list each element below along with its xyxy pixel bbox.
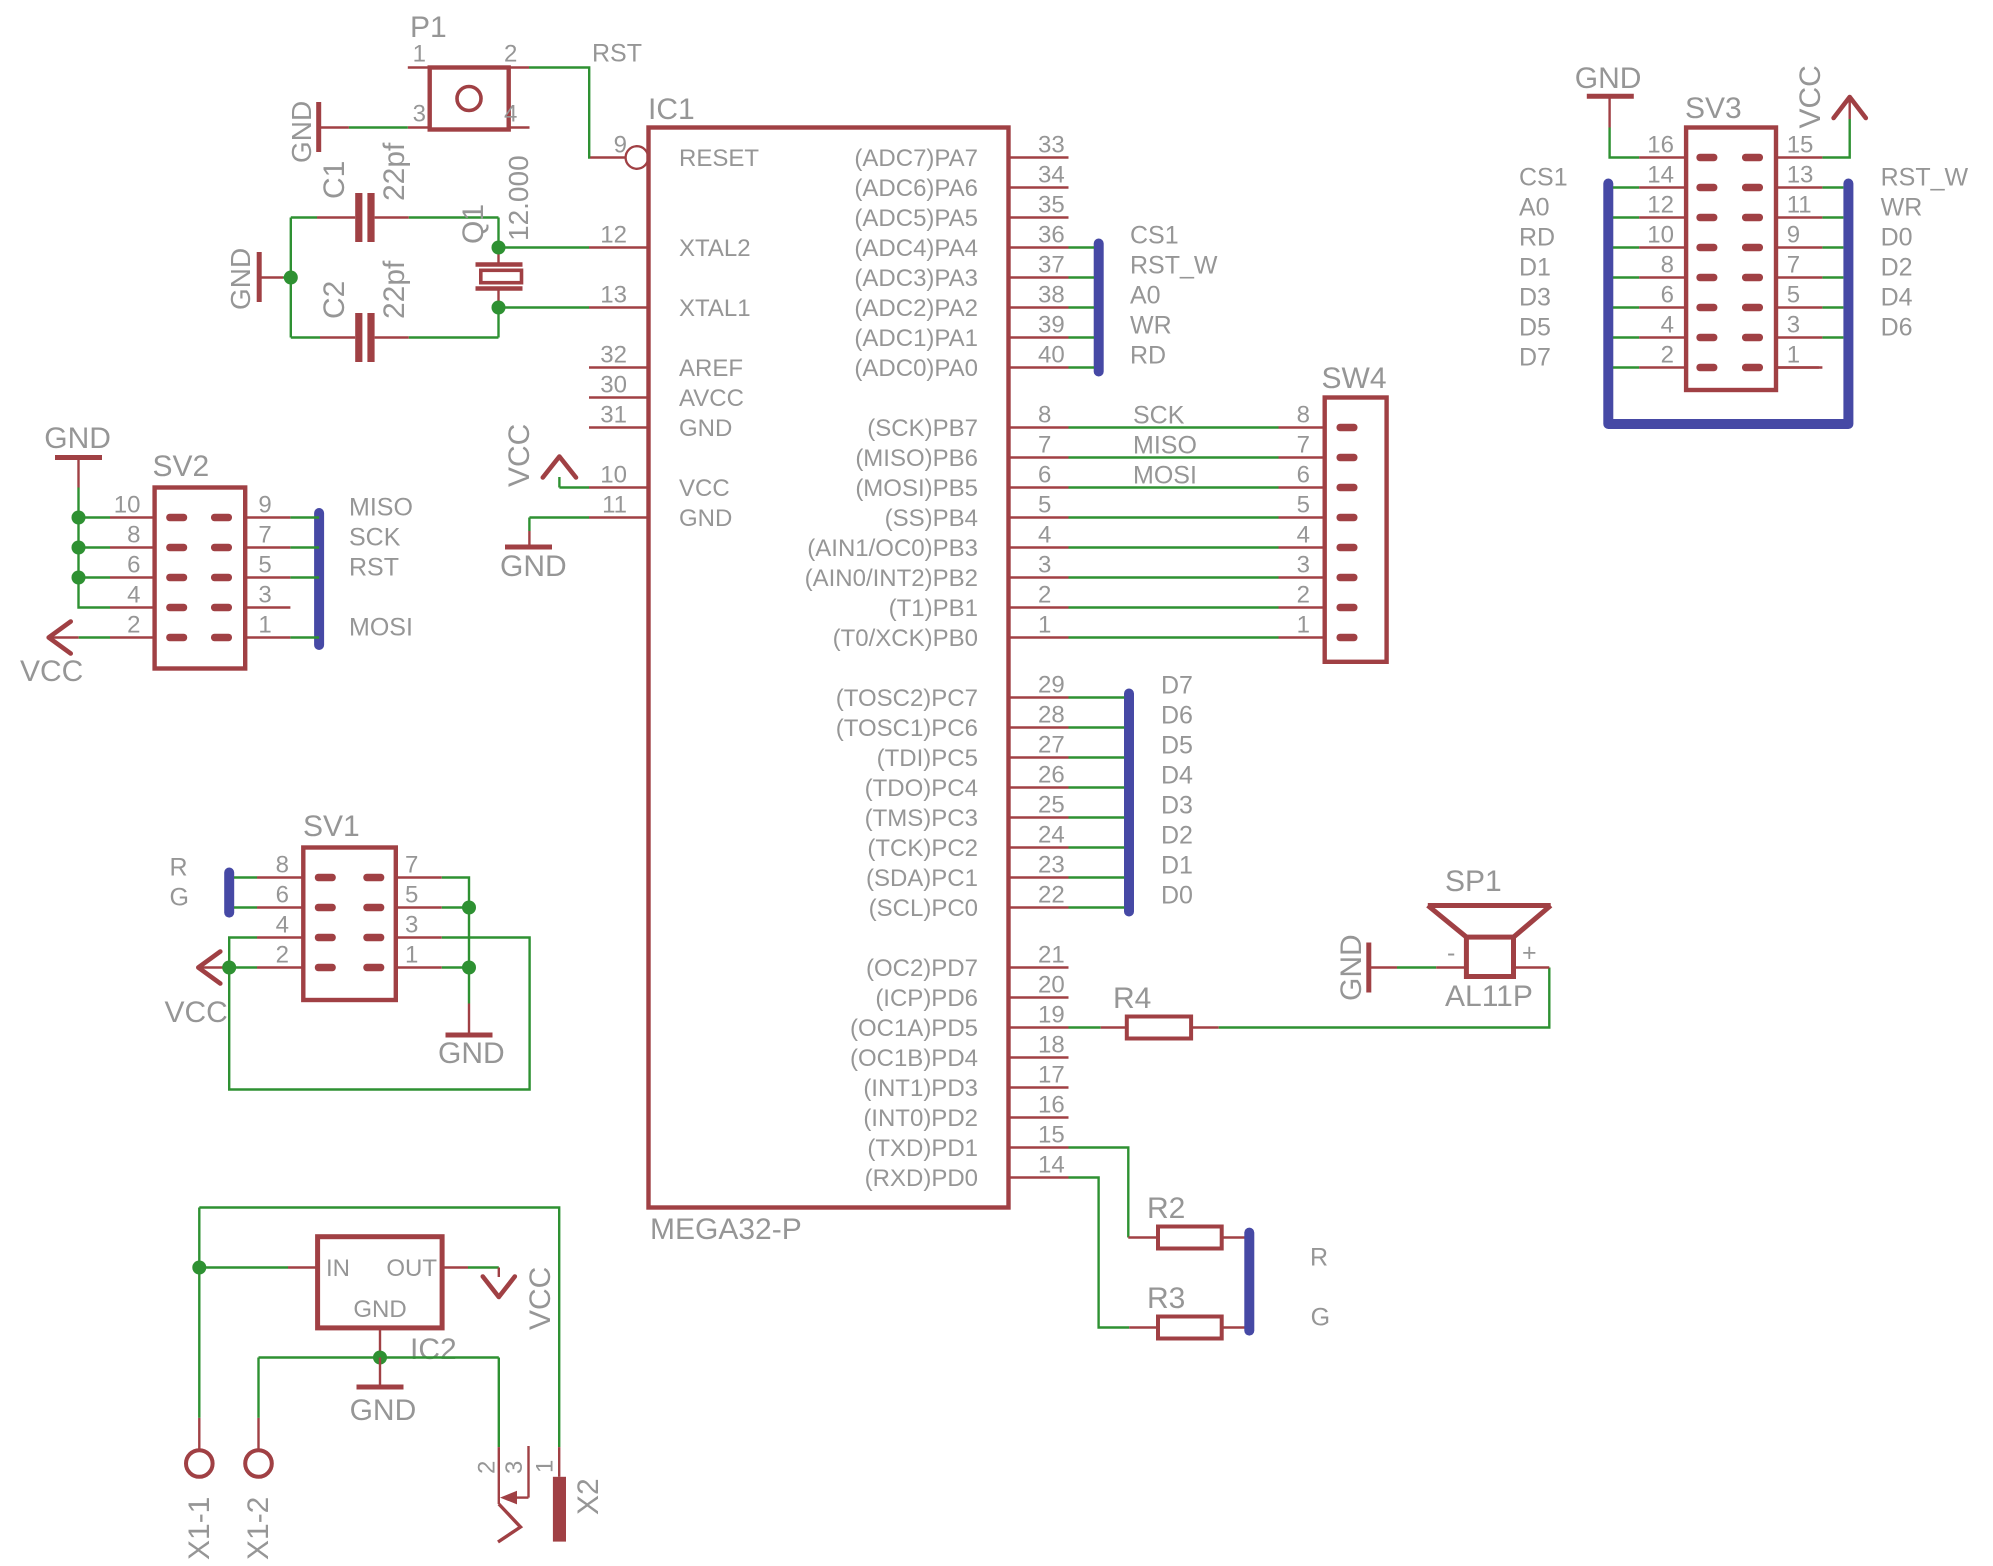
speaker SP1 xyxy=(1436,966,1466,968)
SV2 pin 10 (left) xyxy=(110,516,155,518)
C1 leads xyxy=(317,216,355,218)
svg-text:(RXD)PD0: (RXD)PD0 xyxy=(865,1165,978,1192)
svg-text:(INT1)PD3: (INT1)PD3 xyxy=(863,1075,978,1102)
svg-text:MISO: MISO xyxy=(1133,432,1197,460)
svg-text:D7: D7 xyxy=(1161,672,1193,700)
svg-text:A0: A0 xyxy=(1519,194,1550,222)
svg-text:D1: D1 xyxy=(1519,254,1551,282)
svg-text:5: 5 xyxy=(405,882,418,909)
svg-text:(TOSC2)PC7: (TOSC2)PC7 xyxy=(836,685,978,712)
crystal Q1 xyxy=(476,262,523,267)
svg-text:GND: GND xyxy=(679,505,732,532)
svg-text:21: 21 xyxy=(1038,942,1065,969)
wire net RST from P1 pin 2 to IC1 RESET xyxy=(529,68,590,158)
svg-text:GND: GND xyxy=(350,1394,417,1427)
svg-text:16: 16 xyxy=(1038,1092,1065,1119)
wire PC pin to bus xyxy=(1069,876,1125,878)
svg-text:Q1: Q1 xyxy=(457,204,490,244)
svg-text:3: 3 xyxy=(1038,552,1051,579)
IC1 pin 7 (MISO)PB6 (right) xyxy=(1009,456,1069,458)
IC IC1 MEGA32-P outline xyxy=(649,128,1009,1208)
bus segment R,G at R2/R3 xyxy=(1244,1233,1254,1331)
wire XTAL1 pin 13 xyxy=(499,306,590,308)
supply symbol VCC left arrow at SV2 pin 2 xyxy=(49,622,71,654)
svg-text:SCK: SCK xyxy=(349,524,401,552)
svg-text:GND: GND xyxy=(438,1037,505,1070)
svg-text:VCC: VCC xyxy=(165,996,228,1029)
SV1 pin 8 (left) xyxy=(257,876,303,878)
SV1 pin 2 (left) xyxy=(257,966,303,968)
IC1 pin 25 (TMS)PC3 (right) xyxy=(1009,816,1069,818)
IC1 pin 13 XTAL1 (left) xyxy=(589,306,649,308)
svg-text:D4: D4 xyxy=(1161,762,1193,790)
IC1 pin 32 AREF (left) xyxy=(589,366,649,368)
junction SV2 pin10 xyxy=(72,511,86,525)
P1 pin 3 xyxy=(408,126,430,128)
SV3 pin 2 (left) xyxy=(1639,366,1686,368)
SW4 pin 1 xyxy=(1279,636,1325,638)
svg-text:2: 2 xyxy=(127,612,140,639)
svg-text:28: 28 xyxy=(1038,702,1065,729)
resistor R4 xyxy=(1101,1026,1127,1028)
IC1 pin 12 XTAL2 (left) xyxy=(589,246,649,248)
ground symbol GND at P1 xyxy=(316,102,321,152)
svg-text:(TOSC1)PC6: (TOSC1)PC6 xyxy=(836,715,978,742)
IC1 pin 23 (SDA)PC1 (right) xyxy=(1009,876,1069,878)
svg-text:5: 5 xyxy=(1038,492,1051,519)
svg-text:MOSI: MOSI xyxy=(1133,462,1197,490)
P1 pin 1 xyxy=(408,66,430,68)
junction SV1 pin5 xyxy=(462,901,476,915)
svg-text:D0: D0 xyxy=(1881,224,1913,252)
svg-text:30: 30 xyxy=(600,372,627,399)
wire SV3 left pin to bus xyxy=(1613,216,1639,218)
wire PB pin to SW4 xyxy=(1069,606,1279,608)
svg-text:3: 3 xyxy=(1787,312,1800,339)
wire SV3 left pin to bus xyxy=(1613,366,1639,368)
svg-text:10: 10 xyxy=(600,462,627,489)
svg-text:12: 12 xyxy=(1647,192,1674,219)
pad X1-1 xyxy=(198,1418,200,1450)
wire left vertical C1-C2 xyxy=(290,218,292,338)
svg-text:MEGA32-P: MEGA32-P xyxy=(650,1213,802,1246)
svg-text:3: 3 xyxy=(405,912,418,939)
IC1 pin 22 (SCL)PC0 (right) xyxy=(1009,906,1069,908)
IC1 pin 10 VCC (left) xyxy=(589,486,649,488)
svg-text:1: 1 xyxy=(1297,612,1310,639)
svg-text:6: 6 xyxy=(1038,462,1051,489)
svg-text:GND: GND xyxy=(500,550,567,583)
svg-text:D5: D5 xyxy=(1519,314,1551,342)
svg-text:R4: R4 xyxy=(1113,982,1151,1015)
svg-text:MOSI: MOSI xyxy=(349,614,413,642)
wire SV3 left pin to bus xyxy=(1613,276,1639,278)
svg-text:GND: GND xyxy=(1335,934,1368,1001)
wire SV1 right rail pins 7,5,1 xyxy=(442,878,469,1004)
svg-text:RD: RD xyxy=(1130,342,1166,370)
junction Q1 top xyxy=(492,241,506,255)
wire pin15 to R2 xyxy=(1069,1148,1129,1238)
svg-text:GND: GND xyxy=(225,248,256,310)
svg-text:RD: RD xyxy=(1519,224,1555,252)
P1 pin 4 xyxy=(509,126,530,128)
svg-text:8: 8 xyxy=(276,852,289,879)
svg-text:35: 35 xyxy=(1038,192,1065,219)
svg-text:R: R xyxy=(1310,1244,1328,1272)
wire GND to junction xyxy=(283,276,291,278)
svg-text:IC2: IC2 xyxy=(410,1333,457,1366)
svg-text:13: 13 xyxy=(600,282,627,309)
IC1 pin 39 (ADC1)PA1 (right) xyxy=(1009,336,1069,338)
SV2 pin 1 (right) xyxy=(245,636,290,638)
jack X2 pin 3 contact with arrow xyxy=(527,1446,529,1498)
svg-text:WR: WR xyxy=(1130,312,1172,340)
svg-text:(SCL)PC0: (SCL)PC0 xyxy=(869,895,978,922)
svg-text:CS1: CS1 xyxy=(1130,222,1179,250)
wire XTAL2 pin 12 xyxy=(499,246,590,248)
svg-text:12.000: 12.000 xyxy=(503,155,534,241)
svg-text:D7: D7 xyxy=(1519,344,1551,372)
wire PC pin to bus xyxy=(1069,846,1125,848)
svg-text:SV1: SV1 xyxy=(303,810,360,843)
svg-text:G: G xyxy=(170,884,189,912)
SV2 pin 9 (right) xyxy=(245,516,290,518)
SW4 pin 4 xyxy=(1279,546,1325,548)
bus segment PC7-PC0 (D7..D0) xyxy=(1124,694,1134,912)
svg-text:GND: GND xyxy=(353,1296,406,1323)
wire PB pin to SW4 xyxy=(1069,426,1279,428)
wire PC pin to bus xyxy=(1069,696,1125,698)
SV3 pin 5 (right) xyxy=(1776,306,1822,308)
ground symbol GND at C2 xyxy=(257,252,262,302)
svg-text:(TMS)PC3: (TMS)PC3 xyxy=(865,805,978,832)
wire GND to P1 pin 3 xyxy=(349,126,408,128)
svg-text:SW4: SW4 xyxy=(1322,362,1387,395)
SV3 pin 16 (left) xyxy=(1639,156,1686,158)
IC1 pin 21 (OC2)PD7 (right) xyxy=(1009,966,1069,968)
wire PA pin to bus xyxy=(1069,276,1095,278)
SV3 pin 11 (right) xyxy=(1776,216,1822,218)
svg-text:4: 4 xyxy=(504,101,517,128)
wire pin19 to R4 xyxy=(1069,1026,1101,1028)
IC1 pin 1 (T0/XCK)PB0 (right) xyxy=(1009,636,1069,638)
svg-text:-: - xyxy=(1447,939,1455,967)
bus segment PA4-PA0 (CS1..RD) xyxy=(1094,244,1104,372)
IC2 GND pin stub xyxy=(379,1328,381,1358)
SV3 pin 3 (right) xyxy=(1776,336,1822,338)
IC1 pin 17 (INT1)PD3 (right) xyxy=(1009,1086,1069,1088)
svg-text:(ADC0)PA0: (ADC0)PA0 xyxy=(854,355,978,382)
svg-text:31: 31 xyxy=(600,402,627,429)
IC1 pin 29 (TOSC2)PC7 (right) xyxy=(1009,696,1069,698)
svg-text:D3: D3 xyxy=(1161,792,1193,820)
svg-text:5: 5 xyxy=(1297,492,1310,519)
SV2 pin 8 (left) xyxy=(110,546,155,548)
svg-text:CS1: CS1 xyxy=(1519,164,1568,192)
svg-text:AREF: AREF xyxy=(679,355,743,382)
svg-text:G: G xyxy=(1311,1304,1330,1332)
wire SV1 pin 4 down to VCC net xyxy=(229,938,257,968)
SV2 pin 2 (left) xyxy=(110,636,155,638)
wire PB pin to SW4 xyxy=(1069,486,1279,488)
jack X2 pin 2 contact xyxy=(498,1447,500,1504)
svg-text:5: 5 xyxy=(1787,282,1800,309)
svg-text:(ADC4)PA4: (ADC4)PA4 xyxy=(854,235,978,262)
svg-text:14: 14 xyxy=(1038,1152,1065,1179)
svg-text:(AIN1/OC0)PB3: (AIN1/OC0)PB3 xyxy=(807,535,978,562)
wire PC pin to bus xyxy=(1069,756,1125,758)
SV3 pin 15 (right) xyxy=(1776,156,1822,158)
svg-text:29: 29 xyxy=(1038,672,1065,699)
svg-text:D1: D1 xyxy=(1161,852,1193,880)
IC1 pin 37 (ADC3)PA3 (right) xyxy=(1009,276,1069,278)
svg-text:IN: IN xyxy=(326,1255,350,1282)
ground symbol GND below IC2 xyxy=(379,1358,381,1386)
wire SV3 left pin to bus xyxy=(1613,186,1639,188)
svg-text:22: 22 xyxy=(1038,882,1065,909)
wire SV3 right pin to bus xyxy=(1822,216,1843,218)
wire crystal vertical bottom xyxy=(497,308,499,338)
svg-text:(TDO)PC4: (TDO)PC4 xyxy=(865,775,978,802)
svg-text:(ADC6)PA6: (ADC6)PA6 xyxy=(854,175,978,202)
svg-text:6: 6 xyxy=(276,882,289,909)
wire C2 right to crystal xyxy=(409,336,499,338)
SV1 pin 1 (right) xyxy=(396,966,442,968)
IC1 pin 5 (SS)PB4 (right) xyxy=(1009,516,1069,518)
wire GND to SP1 minus xyxy=(1397,966,1436,968)
SV3 pin 4 (left) xyxy=(1639,336,1686,338)
SV1 pin 5 (right) xyxy=(396,906,442,908)
svg-text:AVCC: AVCC xyxy=(679,385,744,412)
wire PB pin to SW4 xyxy=(1069,546,1279,548)
IC IC2 voltage regulator outline xyxy=(318,1237,443,1328)
wire R4 to SP1 plus xyxy=(1219,968,1550,1028)
SV3 pin 10 (left) xyxy=(1639,246,1686,248)
IC1 pin 27 (TDI)PC5 (right) xyxy=(1009,756,1069,758)
svg-text:D0: D0 xyxy=(1161,882,1193,910)
svg-text:4: 4 xyxy=(1297,522,1310,549)
svg-text:X1-1: X1-1 xyxy=(183,1497,216,1560)
svg-text:D2: D2 xyxy=(1881,254,1913,282)
svg-text:5: 5 xyxy=(258,552,271,579)
bus segment SV2 right xyxy=(314,513,324,645)
wire PC pin to bus xyxy=(1069,816,1125,818)
wire IN net vertical xyxy=(198,1208,200,1418)
svg-text:15: 15 xyxy=(1787,132,1814,159)
connector SV3 outline xyxy=(1686,128,1776,391)
svg-text:D5: D5 xyxy=(1161,732,1193,760)
svg-text:2: 2 xyxy=(1038,582,1051,609)
svg-text:4: 4 xyxy=(127,582,140,609)
SV3 pin 9 (right) xyxy=(1776,246,1822,248)
wire PA pin to bus xyxy=(1069,336,1095,338)
svg-text:2: 2 xyxy=(1661,342,1674,369)
IC1 pin 3 (AIN0/INT2)PB2 (right) xyxy=(1009,576,1069,578)
svg-text:(SS)PB4: (SS)PB4 xyxy=(885,505,978,532)
bus segment SV3 U-shape xyxy=(1608,184,1848,425)
connector SW4 outline xyxy=(1325,398,1387,662)
wire SV3 left pin to bus xyxy=(1613,336,1639,338)
svg-text:(TXD)PD1: (TXD)PD1 xyxy=(867,1135,978,1162)
IC1 pin 19 (OC1A)PD5 (right) xyxy=(1009,1026,1069,1028)
connector P1 outline xyxy=(430,68,509,130)
junction IC2 IN xyxy=(192,1261,206,1275)
SW4 pin 8 xyxy=(1279,426,1325,428)
svg-text:1: 1 xyxy=(413,41,426,68)
svg-text:9: 9 xyxy=(1787,222,1800,249)
IC1 pin 40 (ADC0)PA0 (right) xyxy=(1009,366,1069,368)
wire SV3 right pin to bus xyxy=(1822,306,1843,308)
svg-text:SV3: SV3 xyxy=(1685,92,1742,125)
svg-text:8: 8 xyxy=(1661,252,1674,279)
svg-text:(MOSI)PB5: (MOSI)PB5 xyxy=(855,475,978,502)
SV1 pin 6 (left) xyxy=(257,906,303,908)
svg-text:10: 10 xyxy=(114,492,141,519)
wire PC pin to bus xyxy=(1069,786,1125,788)
svg-text:X1-2: X1-2 xyxy=(242,1497,275,1560)
junction Q1 bottom xyxy=(492,301,506,315)
svg-text:2: 2 xyxy=(504,41,517,68)
IC2 OUT pin stub xyxy=(442,1266,468,1268)
SV3 pin 13 (right) xyxy=(1776,186,1822,188)
svg-text:RESET: RESET xyxy=(679,145,759,172)
svg-text:RST_W: RST_W xyxy=(1130,252,1218,280)
SV1 pin 4 (left) xyxy=(257,936,303,938)
wire SV2 right pin to bus xyxy=(290,546,319,548)
svg-text:SCK: SCK xyxy=(1133,402,1185,430)
wire SV1 pin 6 to bus xyxy=(234,906,257,908)
svg-text:(OC1A)PD5: (OC1A)PD5 xyxy=(850,1015,978,1042)
svg-text:AL11P: AL11P xyxy=(1445,980,1533,1013)
ground symbol GND at IC1 pin 11 xyxy=(528,518,530,532)
svg-text:37: 37 xyxy=(1038,252,1065,279)
IC1 pin 16 (INT0)PD2 (right) xyxy=(1009,1116,1069,1118)
SV1 pin 3 (right) xyxy=(396,936,442,938)
svg-text:GND: GND xyxy=(44,422,111,455)
svg-text:P1: P1 xyxy=(410,11,447,44)
SW4 pin 7 xyxy=(1279,456,1325,458)
junction at GND-C1C2 xyxy=(284,271,298,285)
svg-text:D2: D2 xyxy=(1161,822,1193,850)
IC1 pin 18 (OC1B)PD4 (right) xyxy=(1009,1056,1069,1058)
svg-text:SP1: SP1 xyxy=(1445,865,1502,898)
wire pin 11 to GND xyxy=(529,516,589,518)
svg-text:MISO: MISO xyxy=(349,494,413,522)
svg-text:11: 11 xyxy=(602,492,627,519)
pad X1-2 xyxy=(257,1418,259,1450)
svg-text:D4: D4 xyxy=(1881,284,1913,312)
svg-text:D3: D3 xyxy=(1519,284,1551,312)
svg-text:40: 40 xyxy=(1038,342,1065,369)
svg-text:(OC2)PD7: (OC2)PD7 xyxy=(866,955,978,982)
svg-text:34: 34 xyxy=(1038,162,1065,189)
svg-text:D6: D6 xyxy=(1881,314,1913,342)
wire X1-2 vertical xyxy=(257,1358,259,1418)
SV3 pin 1 (right) xyxy=(1776,366,1822,368)
wire SV3 right pin to bus xyxy=(1822,186,1843,188)
svg-text:7: 7 xyxy=(258,522,271,549)
wire SV3 left pin to bus xyxy=(1613,306,1639,308)
wire SV2 right pin to bus xyxy=(290,576,319,578)
wire crystal vertical top xyxy=(497,218,499,248)
svg-text:(ADC7)PA7: (ADC7)PA7 xyxy=(854,145,978,172)
IC1 pin 35 (ADC5)PA5 (right) xyxy=(1009,216,1069,218)
svg-text:GND: GND xyxy=(286,101,317,163)
junction SV1 pin1 xyxy=(462,961,476,975)
svg-text:4: 4 xyxy=(276,912,289,939)
svg-text:XTAL1: XTAL1 xyxy=(679,295,751,322)
wire GND to SV3 pin 16 xyxy=(1610,128,1640,158)
svg-text:D6: D6 xyxy=(1161,702,1193,730)
svg-text:23: 23 xyxy=(1038,852,1065,879)
wire SV1 pin 3 loop to VCC xyxy=(229,938,529,1090)
svg-text:20: 20 xyxy=(1038,972,1065,999)
IC1 pin 31 GND (left) xyxy=(589,426,649,428)
svg-text:(T1)PB1: (T1)PB1 xyxy=(889,595,978,622)
svg-text:2: 2 xyxy=(1297,582,1310,609)
svg-text:3: 3 xyxy=(258,582,271,609)
wire PC pin to bus xyxy=(1069,726,1125,728)
IC1 pin 8 (SCK)PB7 (right) xyxy=(1009,426,1069,428)
svg-text:(MISO)PB6: (MISO)PB6 xyxy=(855,445,978,472)
wire PB pin to SW4 xyxy=(1069,516,1279,518)
C2 leads xyxy=(320,336,355,338)
IC1 pin 14 (RXD)PD0 (right) xyxy=(1009,1176,1069,1178)
svg-text:2: 2 xyxy=(276,942,289,969)
svg-text:10: 10 xyxy=(1647,222,1674,249)
svg-text:9: 9 xyxy=(614,132,627,159)
wire SV2 right pin to bus xyxy=(290,636,319,638)
svg-text:VCC: VCC xyxy=(503,424,536,487)
SW4 pin 5 xyxy=(1279,516,1325,518)
wire SV2 right pin to bus xyxy=(290,516,319,518)
svg-text:6: 6 xyxy=(1297,462,1310,489)
wire PA pin to bus xyxy=(1069,246,1095,248)
IC1 pin 28 (TOSC1)PC6 (right) xyxy=(1009,726,1069,728)
svg-text:(ADC5)PA5: (ADC5)PA5 xyxy=(854,205,978,232)
SV2 pin 6 (left) xyxy=(110,576,155,578)
IC1 pin 4 (AIN1/OC0)PB3 (right) xyxy=(1009,546,1069,548)
IC1 pin 2 (T1)PB1 (right) xyxy=(1009,606,1069,608)
IC2 IN pin stub xyxy=(288,1266,318,1268)
resistor R3 xyxy=(1129,1326,1158,1328)
svg-text:17: 17 xyxy=(1038,1062,1065,1089)
svg-text:4: 4 xyxy=(1661,312,1674,339)
svg-text:25: 25 xyxy=(1038,792,1065,819)
svg-text:7: 7 xyxy=(1297,432,1310,459)
SW4 pin 3 xyxy=(1279,576,1325,578)
wire VCC to SV1 pin 2 xyxy=(228,966,257,968)
svg-text:(OC1B)PD4: (OC1B)PD4 xyxy=(850,1045,978,1072)
svg-text:GND: GND xyxy=(1575,62,1642,95)
svg-text:3: 3 xyxy=(413,101,426,128)
svg-text:IC1: IC1 xyxy=(648,93,695,126)
svg-text:+: + xyxy=(1522,939,1537,967)
svg-text:R3: R3 xyxy=(1147,1282,1185,1315)
svg-text:X2: X2 xyxy=(572,1478,605,1515)
IC1 pin 33 (ADC7)PA7 (right) xyxy=(1009,156,1069,158)
SV3 pin 1 stub unconnected xyxy=(1776,366,1819,368)
wire SV3 right pin to bus xyxy=(1822,336,1843,338)
SV3 pin 7 (right) xyxy=(1776,276,1822,278)
svg-text:27: 27 xyxy=(1038,732,1065,759)
svg-text:(ADC2)PA2: (ADC2)PA2 xyxy=(854,295,978,322)
resistor R2 xyxy=(1128,1236,1158,1238)
wire VCC to pin 10 xyxy=(559,486,589,488)
SV3 pin 14 (left) xyxy=(1639,186,1686,188)
SV2 pin 4 (left) xyxy=(110,606,155,608)
svg-text:22pf: 22pf xyxy=(378,142,411,201)
